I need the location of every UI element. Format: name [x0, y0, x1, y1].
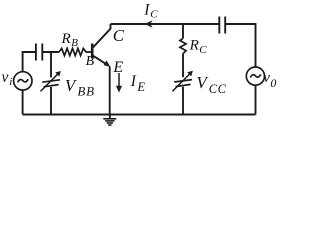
svg-text:BB: BB	[77, 84, 94, 99]
svg-text:v: v	[2, 69, 9, 86]
svg-text:CC: CC	[209, 82, 227, 96]
svg-text:E: E	[136, 80, 145, 94]
svg-text:0: 0	[270, 76, 276, 90]
svg-text:V: V	[196, 73, 209, 92]
svg-text:i: i	[9, 76, 12, 88]
svg-text:C: C	[113, 26, 125, 45]
svg-text:v: v	[263, 70, 270, 86]
svg-text:R: R	[189, 38, 199, 54]
svg-text:B: B	[71, 37, 78, 49]
svg-text:B: B	[86, 54, 95, 69]
svg-text:R: R	[61, 31, 71, 47]
svg-text:V: V	[65, 76, 78, 95]
svg-text:C: C	[199, 44, 207, 56]
svg-text:C: C	[150, 9, 158, 21]
svg-text:I: I	[130, 73, 137, 90]
svg-text:E: E	[112, 59, 123, 76]
